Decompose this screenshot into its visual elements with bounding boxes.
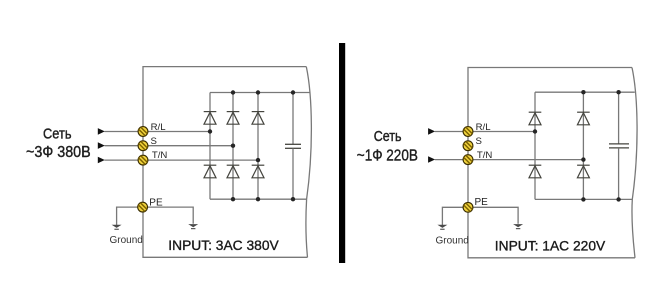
- node S-branch2: [231, 144, 235, 148]
- svg-text:R/L: R/L: [151, 122, 167, 133]
- wire T/N (right): [435, 159, 584, 161]
- node top rail cap: [616, 90, 620, 94]
- svg-text:INPUT: 3AC 380V: INPUT: 3AC 380V: [168, 238, 279, 253]
- wire PE right arm: [143, 207, 194, 224]
- terminal R/L (left): [138, 127, 148, 137]
- terminal R/L (right): [463, 127, 473, 137]
- svg-text:Ground: Ground: [436, 236, 469, 247]
- terminal PE (left): [138, 202, 148, 212]
- diode D9 (right branch1 bottom): [529, 165, 542, 178]
- terminal PE (right): [463, 202, 473, 212]
- wire T/N (left): [105, 159, 259, 161]
- node bottom rail cap: [291, 197, 295, 201]
- ground symbol (right inside): [513, 224, 523, 229]
- svg-text:S: S: [476, 136, 482, 147]
- diode D6 (left branch3 bottom): [252, 165, 265, 178]
- diode D2 (left branch2 top): [227, 112, 240, 125]
- wire PE right arm: [468, 207, 518, 224]
- PE wires (left): [117, 207, 194, 225]
- svg-text:T/N: T/N: [152, 150, 168, 161]
- wire PE left arm: [442, 207, 468, 225]
- wire top rail: [210, 92, 310, 94]
- node top rail cap: [291, 90, 295, 94]
- node top rail branch2: [581, 90, 585, 94]
- node bottom rail branch2: [581, 197, 585, 201]
- terminal T/N (left): [138, 155, 148, 165]
- svg-text:~1Ф 220В: ~1Ф 220В: [357, 147, 418, 164]
- bridge rails (left): [210, 93, 310, 200]
- arrow S (left): [98, 142, 105, 149]
- node R/L-branch1: [533, 129, 537, 133]
- bridge rails (right): [535, 92, 635, 199]
- diode D10 (right branch2 bottom): [577, 165, 590, 178]
- arrow T/N (right): [428, 156, 435, 163]
- node bottom rail branch2: [231, 197, 235, 201]
- wire R/L (right): [435, 131, 535, 133]
- ground symbol (left outside): [112, 225, 122, 230]
- node top rail branch3: [256, 90, 260, 94]
- wire top rail: [535, 91, 635, 93]
- terminal T/N (right): [463, 155, 473, 165]
- arrow R/L (left): [98, 128, 105, 135]
- diode D8 (right branch2 top): [577, 112, 590, 125]
- junction dots (left): [208, 90, 295, 201]
- terminal S (left): [138, 141, 148, 151]
- wire branch 2: [582, 92, 584, 199]
- svg-text:INPUT: 1AC 220V: INPUT: 1AC 220V: [495, 239, 606, 254]
- ground symbol (left inside): [188, 224, 198, 229]
- wire bottom rail: [210, 198, 307, 200]
- node bottom rail cap: [616, 197, 620, 201]
- wire bottom rail: [535, 198, 632, 200]
- diode D1 (left branch1 top): [204, 112, 217, 125]
- svg-text:Ground: Ground: [110, 235, 143, 246]
- svg-text:PE: PE: [149, 198, 163, 209]
- arrow T/N (left): [98, 157, 105, 164]
- capacitor C1 (left): [285, 93, 301, 200]
- terminal S (right): [463, 141, 473, 151]
- diode D3 (left branch3 top): [252, 112, 265, 125]
- capacitor C2 (right): [609, 92, 629, 199]
- svg-text:Сеть: Сеть: [374, 128, 402, 145]
- enclosure box (left drive): [143, 67, 311, 258]
- svg-text:PE: PE: [475, 197, 489, 208]
- svg-text:Сеть: Сеть: [43, 125, 72, 142]
- node bottom rail branch3: [256, 197, 260, 201]
- node T/N-branch3: [256, 158, 260, 162]
- svg-text:R/L: R/L: [476, 122, 492, 133]
- wire branch 1: [209, 93, 211, 200]
- node T/N-branch2: [581, 157, 585, 161]
- diode D4 (left branch1 bottom): [204, 165, 217, 178]
- svg-text:T/N: T/N: [477, 150, 493, 161]
- svg-text:S: S: [151, 136, 157, 147]
- diode D7 (right branch1 top): [529, 112, 542, 125]
- enclosure box (right drive): [468, 68, 637, 258]
- svg-text:~3Ф 380В: ~3Ф 380В: [26, 144, 91, 161]
- divider bar: [339, 43, 345, 263]
- wire PE left arm: [117, 207, 143, 225]
- diode D5 (left branch2 bottom): [227, 165, 240, 178]
- arrow R/L (right): [428, 128, 435, 135]
- wire R/L (left): [105, 131, 211, 133]
- wire S (left): [105, 145, 234, 147]
- wire branch 2: [232, 93, 234, 200]
- wire branch 3: [257, 93, 259, 200]
- ground symbol (right outside): [437, 225, 447, 230]
- junction dots (right): [533, 90, 621, 202]
- node top rail branch2: [231, 90, 235, 94]
- node R/L-branch1: [208, 129, 212, 133]
- wire branch 1: [534, 92, 536, 199]
- PE wires (right): [442, 207, 518, 225]
